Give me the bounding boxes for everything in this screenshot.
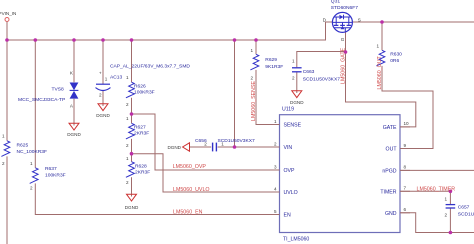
svg-text:AC13: AC13 <box>110 74 123 80</box>
U119 pin 3 OVP <box>270 169 280 171</box>
svg-text:6: 6 <box>404 207 407 212</box>
junction J1 <box>5 38 9 42</box>
capacitor C656 <box>213 143 217 152</box>
U119 pin 4 UVLO <box>270 191 280 193</box>
wire bus to R629 <box>255 40 257 54</box>
capacitor AC13 (polarized) <box>96 84 111 90</box>
wire net LM5060_OVP <box>132 114 280 170</box>
svg-text:R626: R626 <box>134 83 146 89</box>
svg-text:nPGD: nPGD <box>382 168 396 174</box>
wire bus to R637 <box>34 40 36 168</box>
junction J10 <box>233 145 237 149</box>
svg-text:GND: GND <box>385 211 397 217</box>
resistor R625 <box>1 141 9 157</box>
wire port to bus <box>6 22 8 41</box>
svg-text:2: 2 <box>292 76 295 81</box>
wire net LM5060_TIMER to C657 <box>400 191 450 204</box>
svg-text:R630: R630 <box>390 52 402 58</box>
wire R630 bottom to OUT pin <box>382 66 433 149</box>
node PVIN_IN port <box>5 18 9 22</box>
svg-text:U119: U119 <box>282 107 294 113</box>
TVS diode TVS8 <box>70 83 79 99</box>
svg-text:TI_LM5060: TI_LM5060 <box>283 237 309 243</box>
svg-text:C663: C663 <box>303 69 315 75</box>
svg-text:OUT: OUT <box>386 147 398 153</box>
U119 pin 8 nPGD <box>400 169 410 171</box>
wire net LM5060_GATE <box>346 32 416 127</box>
svg-text:SCD1U50V3KX7: SCD1U50V3KX7 <box>218 138 256 144</box>
junction J7 <box>254 38 258 42</box>
wire bus to AC13 <box>102 40 104 84</box>
resistor R637 <box>30 168 38 184</box>
capacitor C657 <box>446 205 456 208</box>
svg-text:STD60N6F7: STD60N6F7 <box>331 5 358 11</box>
svg-text:4: 4 <box>274 186 277 191</box>
svg-text:SCD1U50V3KX7: SCD1U50V3KX7 <box>303 76 341 82</box>
U119 pin 9 OUT <box>400 148 410 150</box>
svg-text:3: 3 <box>274 164 277 169</box>
svg-text:CAP_AL_22UF/63V_M6.3x7.7_SMD: CAP_AL_22UF/63V_M6.3x7.7_SMD <box>110 63 190 69</box>
wire AC13 to ground <box>102 91 104 107</box>
svg-text:Q31: Q31 <box>331 0 341 5</box>
wire source of Q31 to right edge <box>352 21 474 23</box>
wire C663 pin1 riser and gate tie <box>297 52 346 68</box>
svg-text:VIN: VIN <box>284 145 293 151</box>
junction J12 <box>380 20 384 24</box>
wire R625 to bottom edge <box>6 156 8 244</box>
wire R630 top <box>381 22 383 50</box>
capacitor C663 <box>292 68 302 72</box>
ground DGND (C663) <box>292 91 302 98</box>
svg-text:R627: R627 <box>134 124 146 130</box>
wire net LM5060_SENSE <box>256 70 280 125</box>
wire TVS8 to ground <box>73 99 75 126</box>
svg-text:LM5060_SENSE: LM5060_SENSE <box>251 80 257 121</box>
junction J6 <box>233 38 237 42</box>
svg-text:1: 1 <box>376 44 379 49</box>
svg-text:DGND: DGND <box>290 100 304 105</box>
wire VIN node to pin 2 <box>235 146 280 148</box>
svg-text:1: 1 <box>2 134 5 139</box>
svg-text:TIMER: TIMER <box>380 189 396 195</box>
svg-text:DGND: DGND <box>67 132 81 137</box>
svg-text:R628: R628 <box>135 163 147 169</box>
svg-text:MCC_SMCJ33CA-TP: MCC_SMCJ33CA-TP <box>18 97 65 103</box>
junction J3 <box>72 38 76 42</box>
svg-text:2: 2 <box>99 93 102 98</box>
svg-text:2: 2 <box>2 161 5 166</box>
svg-text:LM5060_OVP: LM5060_OVP <box>173 164 207 170</box>
resistor R629 <box>250 54 258 70</box>
svg-text:LM5060_TIMER: LM5060_TIMER <box>417 186 456 192</box>
transistor Q31 (N-MOSFET) <box>332 12 352 32</box>
svg-text:2KR3F: 2KR3F <box>135 169 150 175</box>
svg-text:10: 10 <box>404 121 410 126</box>
svg-text:SCD1U50V3KX7: SCD1U50V3KX7 <box>458 212 474 218</box>
wire bus to TVS8 <box>73 40 75 82</box>
U119 pin 6 GND <box>400 212 410 214</box>
ground DGND (C656, left arrow) <box>183 143 190 151</box>
U119 pin 2 VIN <box>270 146 280 148</box>
resistor R628 <box>126 162 134 178</box>
svg-text:9K1R3F: 9K1R3F <box>265 64 283 70</box>
svg-text:1: 1 <box>126 156 129 161</box>
wire bus to R625 <box>6 40 8 141</box>
svg-text:1: 1 <box>126 116 129 121</box>
svg-text:+: + <box>99 70 102 75</box>
wire main input bus <box>7 22 333 40</box>
svg-text:2: 2 <box>444 212 447 217</box>
svg-text:DGND: DGND <box>96 113 110 118</box>
wire R627 to R628 <box>131 139 133 162</box>
svg-text:DGND: DGND <box>125 205 139 210</box>
wire bus to R626 <box>131 40 133 82</box>
wire net LM5060_EN <box>35 183 279 214</box>
wire R628 to ground <box>131 177 133 196</box>
wire C657 to GND net <box>449 208 451 232</box>
svg-text:C657: C657 <box>458 204 470 210</box>
svg-text:LM5060_UVLO: LM5060_UVLO <box>173 187 210 193</box>
junction J14 <box>449 190 453 194</box>
wire net nPGD to right edge <box>400 169 474 171</box>
junction J4 <box>101 38 105 42</box>
svg-text:0R6: 0R6 <box>390 58 399 64</box>
U119 pin 7 TIMER <box>400 190 410 192</box>
wire GND pin 6 to right edge <box>400 213 474 233</box>
svg-text:2: 2 <box>250 76 253 81</box>
svg-text:2: 2 <box>126 180 129 185</box>
junction J9 <box>130 152 134 156</box>
ground DGND (TVS8) <box>69 123 79 130</box>
op-amp U119 TI_LM5060 body <box>280 115 401 233</box>
junction J13 <box>449 231 453 235</box>
svg-text:S: S <box>358 17 361 22</box>
resistor R630 <box>376 50 384 66</box>
U119 pin 5 EN <box>270 214 280 216</box>
wire R626 to R627 <box>131 98 133 124</box>
svg-text:2: 2 <box>126 143 129 148</box>
svg-text:NC_100KR3F: NC_100KR3F <box>17 149 47 155</box>
wire C656 to VIN node <box>218 146 235 148</box>
svg-text:R629: R629 <box>265 57 277 63</box>
junction J8 <box>130 112 134 116</box>
U119 pin 10 GATE <box>400 126 410 128</box>
svg-text:9: 9 <box>404 143 407 148</box>
svg-text:EN: EN <box>284 213 291 219</box>
svg-text:2: 2 <box>274 141 277 146</box>
wire net LM5060_UVLO <box>132 154 280 192</box>
svg-text:LM5060_GATE: LM5060_GATE <box>340 47 346 84</box>
wire C663 pin2 to ground <box>296 72 298 93</box>
svg-text:C656: C656 <box>195 138 207 144</box>
U119 pin 1 SENSE <box>270 124 280 126</box>
svg-text:1: 1 <box>126 75 129 80</box>
svg-text:LM5060_OUT: LM5060_OUT <box>377 55 383 89</box>
svg-text:100KR3F: 100KR3F <box>45 172 66 178</box>
junction J2 <box>34 38 38 42</box>
svg-text:1: 1 <box>274 119 277 124</box>
svg-text:PVIN_IN: PVIN_IN <box>0 11 16 16</box>
svg-text:7: 7 <box>404 186 407 191</box>
svg-text:UVLO: UVLO <box>284 190 298 196</box>
svg-text:R625: R625 <box>17 142 29 148</box>
svg-text:2: 2 <box>30 186 33 191</box>
svg-text:1: 1 <box>105 77 108 82</box>
resistor R627 <box>126 123 134 139</box>
svg-text:SENSE: SENSE <box>284 123 302 129</box>
svg-text:8: 8 <box>404 165 407 170</box>
junction J11 <box>344 50 348 54</box>
svg-text:1: 1 <box>292 59 295 64</box>
svg-text:DGND: DGND <box>167 145 181 150</box>
wire DGND arrow to C656 <box>190 146 212 148</box>
ground DGND (R628) <box>127 194 137 201</box>
svg-text:TVS8: TVS8 <box>52 87 65 93</box>
svg-text:LM5060_EN: LM5060_EN <box>173 209 203 215</box>
svg-text:OVP: OVP <box>284 168 295 174</box>
svg-text:2KR3F: 2KR3F <box>134 130 149 136</box>
svg-text:2: 2 <box>126 102 129 107</box>
svg-text:1: 1 <box>30 161 33 166</box>
resistor R626 <box>126 82 134 98</box>
svg-text:5: 5 <box>274 209 277 214</box>
svg-text:G: G <box>341 37 345 42</box>
svg-text:1: 1 <box>250 48 253 53</box>
junction J5 <box>130 38 134 42</box>
svg-text:100KR3F: 100KR3F <box>134 89 155 95</box>
ground DGND (AC13) <box>98 104 108 111</box>
svg-text:GATE: GATE <box>383 125 397 131</box>
wire bus to VIN node <box>234 40 236 147</box>
svg-text:1: 1 <box>444 196 447 201</box>
svg-text:R637: R637 <box>45 166 57 172</box>
